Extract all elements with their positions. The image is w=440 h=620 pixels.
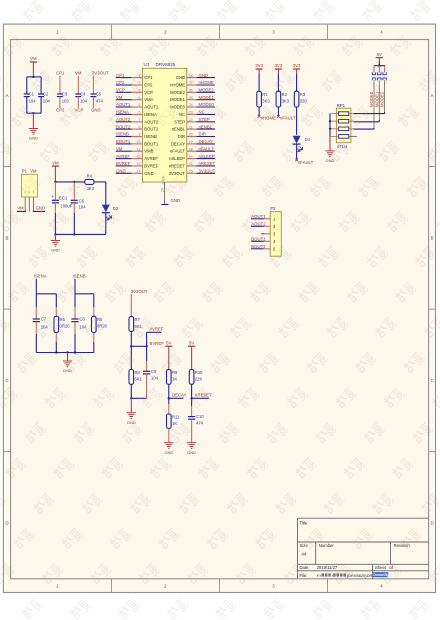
net label BOUT1 [116,139,131,144]
svg-text:26: 26 [189,89,193,93]
U1 pin 13 BVREF [132,162,159,168]
svg-text:NC: NC [199,110,205,115]
wire [130,331,132,369]
svg-text:P2: P2 [270,206,276,211]
wire [296,74,298,92]
net label nRESET [199,161,216,166]
svg-text:R11: R11 [172,415,180,420]
power VM [30,56,37,77]
svg-text:25: 25 [189,96,193,100]
svg-text:NC: NC [179,112,185,117]
net label ISENA [34,273,47,278]
RP1 right pin [349,128,354,130]
net label ISENB [73,273,86,278]
net label DIR [199,132,206,137]
net label AOUT2 [116,117,131,122]
P2 pin 4 [264,239,276,244]
svg-text:24: 24 [189,103,193,107]
connector P2 designator [270,206,276,211]
svg-text:A4: A4 [301,552,307,557]
wire net nENBL [197,128,216,130]
net label ISENA [116,110,129,115]
svg-text:104: 104 [80,99,88,104]
net label nHOME [261,116,276,121]
LED D2 [102,205,119,220]
svg-text:VM: VM [30,56,37,61]
capacitor C1 [24,77,36,113]
wire [36,293,56,295]
resistor R6 [92,294,108,353]
svg-text:GND: GND [144,171,153,176]
P1 pin 1 [24,197,26,211]
U1 pin 24 MODE0 [170,103,196,109]
U1 pin 1 CP1 [132,74,154,80]
resistor R7 [129,317,143,332]
svg-text:C8: C8 [79,316,85,321]
wire [258,107,260,116]
wire net CP1 [116,77,132,79]
net label nHOME [199,80,214,85]
net label VM [75,71,82,76]
net label VM [17,206,24,211]
svg-text:22K: 22K [195,377,203,382]
svg-text:3K3: 3K3 [262,98,270,103]
net label nFAULT [280,116,296,121]
svg-text:R4: R4 [87,173,93,178]
svg-text:AVREF: AVREF [116,154,130,159]
net label XRESET [195,393,213,398]
power 3V3 [293,63,301,73]
svg-text:6: 6 [139,111,141,115]
svg-text:D: D [5,521,8,526]
U1 pin 20 DIR [178,133,197,139]
net label AVREF [150,326,164,331]
wire [251,218,264,220]
wire [374,65,386,67]
capacitor C2 [38,77,50,113]
capacitor EC1 [51,182,73,235]
RP1 left pin [330,120,339,122]
wire MODE1 [354,120,380,122]
svg-text:MODE1: MODE1 [170,97,186,102]
svg-text:GND: GND [326,158,335,163]
net label AOUT1 [116,102,131,107]
RP1 element 3 [339,127,349,131]
net label BOUT1 [251,236,266,241]
svg-text:7: 7 [139,118,141,122]
svg-text:STEP: STEP [174,119,185,124]
net label nFAULT [199,146,215,151]
resistor R8 [129,370,143,385]
svg-text:nFAULT: nFAULT [280,116,296,121]
svg-text:nHOME: nHOME [199,80,214,85]
svg-text:20: 20 [189,133,193,137]
svg-text:VM: VM [17,206,24,211]
power VM [52,160,59,182]
net label BVREF [116,161,131,166]
RP1 element 1 [339,112,349,116]
U1 pin 16 nRESET [169,162,197,168]
wire [130,294,132,316]
wire net GND [116,172,132,174]
svg-text:GND: GND [51,248,60,253]
net label nFAULT [298,160,314,165]
svg-text:GND: GND [164,450,173,455]
svg-text:B: B [431,235,434,240]
RP1 element 2 [339,119,349,123]
svg-text:AOUT1: AOUT1 [144,105,159,110]
connector P1 designator [22,169,37,174]
wire net nHOME [197,84,216,86]
U1 pin 25 MODE1 [170,96,196,102]
svg-text:16: 16 [189,162,193,166]
capacitor C3 [57,76,69,108]
P1 pin 2 [28,197,30,211]
wire [190,384,192,416]
wire net nRESET [197,165,216,167]
svg-text:R9: R9 [172,370,178,375]
svg-text:R1: R1 [262,92,268,97]
svg-text:2019/11/27: 2019/11/27 [317,565,338,570]
wire DECAY stub [169,397,184,399]
svg-text:VM: VM [116,95,123,100]
RP1 element 4 [339,135,349,139]
svg-text:CP1: CP1 [116,73,125,78]
wire net DIR [197,136,216,138]
svg-text:ISENA: ISENA [144,112,157,117]
wire [162,204,169,206]
wire [277,107,279,116]
svg-text:DECAY: DECAY [171,141,185,146]
svg-text:104: 104 [151,375,159,380]
svg-text:10: 10 [137,140,141,144]
svg-text:D1: D1 [305,137,311,142]
wire [262,233,264,235]
U1 pin 7 AOUT2 [132,118,159,124]
U1 pin 18 nFAULT [170,147,197,153]
svg-text:GND: GND [29,136,38,141]
svg-text:DIR: DIR [178,134,185,139]
svg-text:29: 29 [160,188,164,192]
net label BOUT2 [251,244,266,249]
wire [168,428,170,442]
svg-text:23: 23 [189,111,193,115]
svg-text:VM: VM [30,169,37,174]
svg-text:GND: GND [171,198,181,203]
svg-text:ISENB: ISENB [116,132,129,137]
svg-text:DECAY: DECAY [199,139,214,144]
U1 pin 29 pad [160,182,164,205]
svg-text:330: 330 [300,98,308,103]
net label MODE2 [380,91,385,107]
svg-text:C2: C2 [43,91,49,96]
no-ERC marker [277,115,280,118]
net label 3V3OUT [131,289,148,294]
svg-text:100uF: 100uF [60,203,72,208]
wire net nFAULT [197,150,216,152]
U1 pin 22 STEP [174,118,196,124]
net label GND [171,198,181,203]
U1 pin 14 GND [132,170,154,176]
svg-text:CP1: CP1 [56,71,65,76]
svg-text:DRV8825: DRV8825 [156,62,176,67]
power 5V [188,341,195,370]
net label VM [116,95,123,100]
U1 pin 4 VMA [132,96,154,102]
svg-text:C5: C5 [96,91,102,96]
svg-text:R7: R7 [135,317,141,322]
wire net 3V3OUT [197,172,216,174]
svg-text:3V3OUT: 3V3OUT [131,289,148,294]
wire MODE0 [354,128,374,129]
capacitor C9 [143,346,159,398]
LED D1 [293,136,311,152]
svg-text:Size: Size [300,543,309,548]
wire [27,76,41,78]
svg-text:3V3OUT: 3V3OUT [169,171,186,176]
wire [27,112,41,114]
U1 pin 21 nENBL [172,125,197,131]
RP1 left pin [330,135,339,137]
svg-text:3K3: 3K3 [87,186,95,191]
wire net GND [197,77,216,79]
wire MODE2 [384,80,386,113]
net label CP1 [56,71,65,76]
svg-text:MODE2: MODE2 [199,88,215,93]
wire net MODE1 [197,99,216,101]
svg-text:VCP: VCP [116,88,125,93]
svg-text:3V3OUT: 3V3OUT [92,71,109,76]
wire XRESET stub [192,397,209,399]
wire [296,107,298,135]
wire net DECAY [197,143,216,145]
wire AVREF stub [147,332,162,346]
net label nSLEEP [199,154,215,159]
net label CP2 [116,80,125,85]
svg-text:21: 21 [189,125,193,129]
no-ERC marker [258,115,261,118]
wire GND [33,210,45,212]
wire [251,240,264,242]
svg-text:AOUT1: AOUT1 [116,102,131,107]
power 5V [165,341,172,370]
svg-text:DIR: DIR [199,132,206,137]
net label GND [36,206,46,211]
power 3V3 [275,63,283,73]
no-ERC marker [295,159,298,162]
net label DECAY [172,393,187,398]
connector P1 body [22,174,38,197]
svg-text:ISENB: ISENB [73,273,86,278]
ground [63,353,72,374]
svg-text:R10: R10 [195,370,203,375]
P2 pin 5 [264,246,276,251]
svg-text:CP2: CP2 [144,83,153,88]
svg-text:3V3: 3V3 [293,63,301,68]
svg-text:R3: R3 [300,92,306,97]
net label AOUT1 [251,214,266,219]
svg-text:22: 22 [189,118,193,122]
ground [51,234,60,252]
U1 pin 9 ISENB [132,133,158,139]
RP1 value [337,144,348,149]
capacitor C6 [71,182,86,235]
resistor R10 [189,370,203,385]
wire [251,225,264,227]
U1 pin 11 VMB [132,147,154,153]
svg-text:P1: P1 [22,169,28,174]
capacitor C4 [75,76,87,108]
svg-text:A: A [6,93,9,98]
svg-text:C1: C1 [29,91,35,96]
wire MODE0 [373,80,375,129]
svg-text:Title: Title [300,521,308,526]
svg-text:RP1: RP1 [337,103,346,108]
svg-text:11: 11 [137,147,141,151]
capacitor C7 [33,294,49,353]
svg-text:BOUT2: BOUT2 [116,124,131,129]
svg-text:MODE0: MODE0 [170,105,186,110]
RP1 right pin 8 NC [349,135,357,137]
svg-text:CP2: CP2 [116,80,125,85]
svg-text:VM: VM [75,71,82,76]
ground [325,136,334,163]
wire [35,279,37,294]
svg-text:BOUT1: BOUT1 [116,139,131,144]
svg-text:104: 104 [79,205,87,210]
svg-text:104: 104 [43,99,51,104]
svg-text:4: 4 [139,96,141,100]
wire [130,384,147,399]
svg-text:C6: C6 [79,199,85,204]
svg-text:nRESET: nRESET [169,163,186,168]
svg-text:D: D [431,521,434,526]
wire net nSLEEP [197,158,216,160]
svg-text:BVREF: BVREF [116,161,131,166]
ground [164,443,173,455]
svg-text:3V3: 3V3 [275,63,283,68]
net label CP1 [116,73,125,78]
RP1 right pin [349,120,354,122]
wire BVREF [131,345,148,347]
wire MODE2 [354,112,385,114]
svg-text:MODE1: MODE1 [199,95,215,100]
svg-text:5V: 5V [189,341,194,346]
svg-text:AVREF: AVREF [150,326,164,331]
wire [74,279,76,294]
resistor network RP1 designator [337,103,346,108]
svg-text:VM: VM [116,146,123,151]
svg-text:9: 9 [139,133,141,137]
resistor R3 [294,91,307,107]
U1 pin 8 BOUT2 [132,125,159,131]
svg-text:GND: GND [176,75,185,80]
connector P2 body [270,212,281,257]
svg-text:3: 3 [139,89,141,93]
wire net BOUT1 [116,143,132,145]
net label MODE1 [199,95,215,100]
capacitor C8 [71,294,87,353]
net label 3V3OUT [92,71,109,76]
resistor R5 [54,294,70,353]
svg-text:15: 15 [189,170,193,174]
net label CP2 [56,108,65,113]
svg-text:+: + [51,194,54,199]
net label MODE1 [374,91,379,107]
svg-text:nSLEEP: nSLEEP [169,156,185,161]
wire net AOUT2 [116,121,132,123]
U1 pin 2 CP2 [132,81,154,87]
svg-text:5V: 5V [166,341,171,346]
net label NC [199,110,205,115]
resistor R9 [167,370,179,385]
svg-text:nSLEEP: nSLEEP [199,154,215,159]
svg-text:R2: R2 [282,92,288,97]
U1 pin 12 AVREF [132,155,159,161]
svg-text:B: B [6,235,9,240]
net label GND [199,73,209,78]
svg-text:nENBL: nENBL [172,127,186,132]
svg-text:GND: GND [116,169,126,174]
svg-text:GND: GND [36,206,46,211]
wire [296,144,298,160]
wire VM [17,210,26,212]
svg-text:BOUT1: BOUT1 [251,236,266,241]
svg-text:474: 474 [96,99,104,104]
wire net NC [197,113,216,115]
capacitor C10 [188,414,204,443]
RP1 right pin [349,113,354,115]
svg-text:nFAULT: nFAULT [298,160,314,165]
wire [251,248,264,250]
svg-text:5K1: 5K1 [135,377,143,382]
net label AVREF [116,154,130,159]
svg-text:5V: 5V [377,52,382,57]
U1 pin 19 DECAY [171,140,197,146]
power 3V3 [255,63,263,73]
svg-text:C9: C9 [151,369,157,374]
wire net MODE0 [197,106,216,108]
net label VCP [75,108,84,113]
resistor R11 [167,414,181,428]
svg-text:A: A [431,93,434,98]
wire [75,293,94,295]
capacitor C5 [90,76,103,108]
ground [127,398,136,425]
svg-text:AOUT2: AOUT2 [144,119,159,124]
net label GND [91,108,101,113]
wire [94,182,106,205]
svg-text:8: 8 [139,125,141,129]
wire [329,114,331,137]
wire [258,74,260,92]
net label AOUT2 [251,221,266,226]
svg-text:13: 13 [137,162,141,166]
U1 pin 26 MODE2 [170,89,196,95]
wire [36,351,94,353]
svg-text:nRESET: nRESET [199,161,216,166]
net label BOUT2 [116,124,131,129]
wire net VM [116,99,132,101]
U1 pin 6 ISENA [132,111,158,117]
svg-text:5: 5 [139,103,141,107]
wire [277,74,279,92]
svg-text:BVREF: BVREF [150,341,165,346]
svg-text:0R20: 0R20 [60,324,71,329]
net label DECAY [199,139,214,144]
svg-text:nFAULT: nFAULT [170,149,185,154]
svg-text:3V3OUT: 3V3OUT [199,169,216,174]
